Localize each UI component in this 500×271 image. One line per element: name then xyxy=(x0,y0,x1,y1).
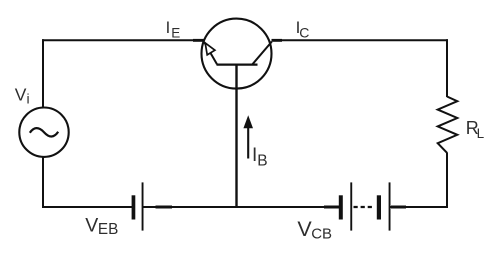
svg-text:C: C xyxy=(299,24,309,40)
wire bottom-right (VCB to RL) xyxy=(390,206,448,208)
transistor Q1 emitter lead xyxy=(204,42,217,64)
wire base vertical (base to bottom rail) xyxy=(235,65,237,208)
battery VCB cell1 negative plate (short thick) xyxy=(339,195,343,219)
wire left vertical upper (Vi top lead) xyxy=(42,39,44,108)
svg-text:V: V xyxy=(297,217,312,241)
transistor Q1 circle xyxy=(202,19,272,89)
arrow IB head xyxy=(243,115,253,128)
svg-text:V: V xyxy=(15,85,27,105)
svg-text:CB: CB xyxy=(311,225,332,242)
transistor Q1 collector lead xyxy=(252,42,271,65)
wire left vertical lower (Vi bottom lead) xyxy=(42,156,44,208)
svg-text:EB: EB xyxy=(98,221,118,238)
wire top-right (collector to RL) xyxy=(272,39,449,41)
wire top-left (emitter to source) xyxy=(42,39,203,41)
resistor RL zigzag xyxy=(438,97,458,153)
svg-text:i: i xyxy=(27,91,30,107)
transistor Q1 base bar xyxy=(217,63,258,65)
wire stub right of VEB battery xyxy=(156,206,173,209)
battery VCB cell2 negative plate (short thick) xyxy=(377,195,381,219)
wire stub at transistor collector terminal xyxy=(272,39,283,42)
wire bottom-left (to VEB battery) xyxy=(42,206,133,208)
AC source U1 circle xyxy=(19,108,68,157)
battery VCB cell2 positive plate (long thin) xyxy=(389,182,391,230)
battery VCB inter-cell dashed wire xyxy=(354,206,375,208)
svg-text:V: V xyxy=(85,214,98,236)
svg-text:B: B xyxy=(257,152,267,169)
svg-text:L: L xyxy=(477,126,485,141)
battery VEB negative plate (short thick) xyxy=(132,195,136,219)
wire right vertical upper (RL top lead) xyxy=(446,39,448,97)
wire right vertical lower (RL bottom lead) xyxy=(446,153,448,209)
battery VCB cell1 positive plate (long thin) xyxy=(350,182,352,230)
wire bottom-middle (VEB to VCB through base node) xyxy=(143,206,339,208)
svg-text:I: I xyxy=(166,19,171,37)
wire stub left of VCB battery xyxy=(324,206,339,209)
svg-text:E: E xyxy=(171,25,180,40)
wire stub at transistor emitter terminal xyxy=(193,39,204,42)
arrow IB (base current) shaft xyxy=(247,126,249,159)
AC source sine wave xyxy=(30,128,58,136)
transistor Q1 emitter arrowhead (open) xyxy=(205,43,215,55)
wire stub right of VCB battery xyxy=(391,206,406,209)
battery VEB positive plate (long thin) xyxy=(142,182,144,230)
